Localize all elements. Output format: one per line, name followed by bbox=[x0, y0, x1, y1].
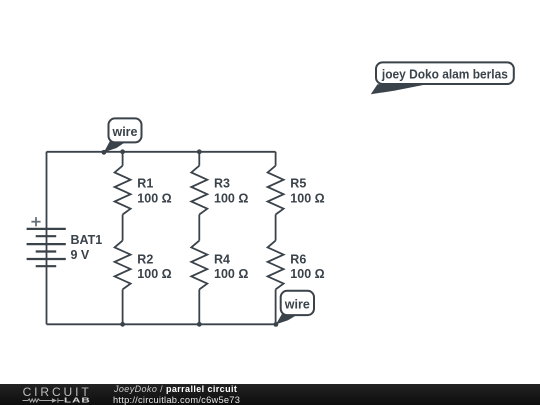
battery BAT1 plates bbox=[27, 229, 66, 266]
svg-text:R3: R3 bbox=[214, 177, 230, 191]
svg-text:9 V: 9 V bbox=[71, 248, 90, 262]
resistor R4 bbox=[191, 241, 207, 290]
callout tail to top wire bbox=[104, 141, 125, 152]
svg-text:100 Ω: 100 Ω bbox=[137, 267, 171, 281]
svg-text:100 Ω: 100 Ω bbox=[214, 191, 248, 205]
svg-text:R4: R4 bbox=[214, 253, 230, 267]
svg-text:100 Ω: 100 Ω bbox=[290, 267, 324, 281]
wire branch 1 middle segment bbox=[122, 215, 124, 241]
svg-text:LAB: LAB bbox=[64, 396, 91, 404]
footer bar bbox=[0, 384, 540, 405]
callout bubble "wire" (bottom) bbox=[281, 291, 314, 315]
resistor R3 bbox=[191, 166, 207, 215]
wire branch 2 middle segment bbox=[198, 215, 200, 241]
resistor R1 bbox=[115, 166, 131, 215]
callout anchor dot on bottom wire bbox=[274, 322, 279, 327]
wire left vertical bbox=[46, 152, 48, 324]
svg-text:100 Ω: 100 Ω bbox=[214, 267, 248, 281]
wire branch 1 upper segment bbox=[122, 152, 124, 166]
svg-text:R6: R6 bbox=[290, 253, 306, 267]
resistor R2 bbox=[115, 241, 131, 290]
callout anchor dot on top wire bbox=[102, 150, 107, 155]
svg-text:100 Ω: 100 Ω bbox=[290, 191, 324, 205]
svg-text:wire: wire bbox=[111, 125, 137, 139]
svg-text:R1: R1 bbox=[137, 177, 153, 191]
junction bottom wire / branch 1 bbox=[120, 322, 125, 327]
svg-text:R5: R5 bbox=[290, 177, 306, 191]
wire branch 1 lower segment bbox=[122, 289, 124, 324]
junction top wire / branch 1 bbox=[120, 149, 125, 154]
callout bubble "wire" (top) bbox=[109, 118, 142, 142]
junction bottom wire / branch 2 bbox=[197, 322, 202, 327]
battery plus sign bbox=[31, 217, 40, 226]
svg-text:wire: wire bbox=[284, 297, 310, 311]
annotation bubble "joey Doko alam berlas" bbox=[376, 62, 514, 84]
wire branch 3 lower segment bbox=[275, 289, 277, 324]
resistor R5 bbox=[268, 166, 284, 215]
junction top wire / branch 2 bbox=[197, 149, 202, 154]
svg-text:R2: R2 bbox=[137, 253, 153, 267]
logo resistor glyph bbox=[23, 398, 64, 403]
wire top horizontal bbox=[47, 151, 276, 153]
wire bottom horizontal bbox=[47, 323, 276, 325]
annotation bubble tail bbox=[371, 84, 425, 94]
wire branch 2 upper segment bbox=[198, 152, 200, 166]
wire branch 3 middle segment bbox=[275, 215, 277, 241]
wire branch 2 lower segment bbox=[198, 289, 200, 324]
svg-text:BAT1: BAT1 bbox=[71, 233, 103, 247]
svg-text:100 Ω: 100 Ω bbox=[137, 191, 171, 205]
callout tail to bottom wire bbox=[276, 313, 297, 324]
wire branch 3 upper segment bbox=[275, 152, 277, 166]
resistor R6 bbox=[268, 241, 284, 290]
svg-text:joey Doko alam berlas: joey Doko alam berlas bbox=[381, 67, 508, 81]
